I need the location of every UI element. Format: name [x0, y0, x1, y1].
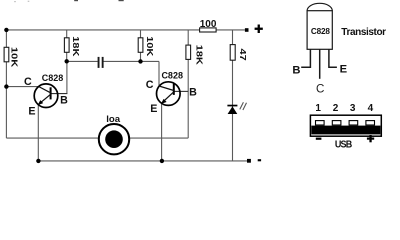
svg-text:10K: 10K — [9, 47, 18, 67]
terminal square negative — [247, 159, 251, 163]
svg-text:loa: loa — [106, 114, 121, 125]
wire: top +V rail — [6, 29, 245, 31]
wire: Q2 collector vertical — [158, 61, 160, 86]
resistor R4 18K body — [186, 45, 191, 59]
TO-92 leg E — [329, 49, 337, 67]
resistor R6 47 body — [230, 45, 235, 61]
wire: R3 branch vertical — [140, 30, 142, 62]
plus sign supply — [255, 28, 263, 30]
wire: Q1 base horizontal — [51, 93, 68, 95]
svg-text:3: 3 — [350, 103, 356, 114]
svg-text:C: C — [146, 79, 154, 91]
junction dot Q1 emitter / bottom rail — [36, 159, 40, 163]
svg-text:C828: C828 — [42, 73, 64, 83]
TO-92 package body — [307, 11, 332, 50]
svg-text:C828: C828 — [161, 70, 183, 80]
wire: Q2 collector horizontal — [141, 60, 160, 62]
USB tongue black bar — [311, 126, 380, 135]
svg-text:B: B — [292, 64, 300, 76]
svg-text:C: C — [24, 76, 32, 88]
TO-92 leg B — [301, 49, 310, 67]
svg-text:47: 47 — [237, 48, 246, 60]
transistor Q2 circle — [157, 82, 181, 106]
USB pin contact 3 — [349, 121, 358, 125]
transistor Q1 collector internal line — [39, 87, 51, 93]
transistor Q2 emitter internal line with arrow — [163, 92, 174, 102]
wire: speaker right lead — [129, 137, 188, 139]
wire: R2 branch vertical — [66, 30, 68, 61]
svg-text:4: 4 — [368, 103, 374, 114]
USB minus label — [316, 138, 322, 140]
junction dot R3 bottom / Q2 collector node — [138, 59, 142, 63]
junction dot R2 bottom / Q1 base node — [65, 59, 69, 63]
TO-92 package dome — [307, 3, 332, 10]
USB pin contact 4 — [366, 121, 375, 125]
svg-text:C828: C828 — [311, 27, 330, 36]
svg-text:2: 2 — [333, 103, 339, 114]
svg-text:E: E — [28, 106, 35, 118]
wire: Q2 base horizontal — [174, 90, 188, 92]
svg-text:B: B — [60, 94, 68, 106]
speaker LS1 outer circle — [99, 124, 129, 154]
resistor R3 10K body — [138, 38, 143, 53]
wire: speaker left lead — [6, 137, 99, 139]
wire: left branch vertical (rail to speaker corner) — [5, 30, 7, 138]
resistor R1 10K body — [4, 47, 9, 62]
svg-text:100: 100 — [200, 19, 217, 30]
svg-text:10K: 10K — [145, 36, 154, 56]
transistor Q1 base bar — [50, 87, 52, 99]
LED D1 cathode bar — [227, 105, 237, 107]
svg-text:1: 1 — [315, 103, 321, 114]
svg-text:E: E — [150, 103, 157, 115]
minus sign supply — [258, 159, 261, 161]
USB pin contact 1 — [316, 121, 325, 125]
junction dot Q2 emitter / bottom rail — [160, 159, 164, 163]
wire: Q2 emitter vertical — [161, 103, 163, 161]
svg-text:18K: 18K — [194, 45, 203, 65]
resistor R5 100 body (horizontal) — [200, 28, 217, 32]
wire: Q1 base vertical — [66, 61, 68, 93]
junction dot R1 bottom / Q1 collector node — [4, 84, 8, 88]
wire: Q1 collector lead — [6, 86, 38, 88]
wire: R6/LED branch vertical — [232, 30, 234, 161]
transistor Q1 emitter internal line with arrow — [40, 94, 51, 103]
LED D1 light arrows — [240, 102, 244, 109]
transistor Q1 circle — [34, 84, 58, 108]
svg-text:USB: USB — [335, 139, 352, 151]
TO-92 leg C — [319, 49, 321, 79]
junction dot top-left corner — [4, 28, 8, 32]
cropped caption remnant top edge — [14, 0, 124, 2]
svg-text:Transistor: Transistor — [341, 27, 386, 38]
wire: capacitor left lead — [67, 60, 98, 62]
speaker LS1 inner dot — [105, 130, 123, 148]
svg-text:C: C — [316, 82, 324, 95]
LED D1 triangle — [228, 106, 238, 114]
wire: capacitor right lead — [104, 60, 141, 62]
svg-text:B: B — [189, 86, 197, 98]
USB connector outer shell — [310, 115, 381, 136]
svg-text:18K: 18K — [71, 36, 80, 56]
wire: bottom rail — [38, 160, 247, 162]
transistor Q2 collector internal line — [159, 86, 174, 91]
svg-text:E: E — [340, 64, 348, 76]
wire: Q1 emitter vertical — [37, 104, 39, 161]
wire: R4 / Q2 base / speaker-right node vertical — [187, 30, 189, 138]
USB plus label — [367, 138, 374, 140]
capacitor C1 plates — [98, 57, 100, 68]
USB pin contact 2 — [332, 121, 341, 125]
resistor R2 18K body — [64, 38, 69, 53]
terminal square positive — [245, 28, 249, 32]
transistor Q2 base bar — [173, 84, 175, 95]
